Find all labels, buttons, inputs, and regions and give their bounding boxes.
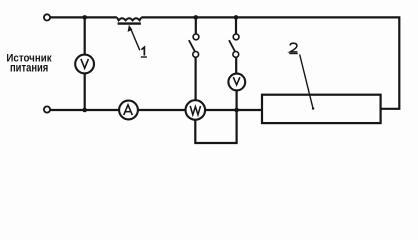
label 2 leader (300, 55, 313, 108)
node: top bus / S2 branch (234, 15, 239, 20)
inductor L1 (iron-core choke) (117, 17, 141, 20)
wire: switch S1 to wattmeter (195, 57, 197, 100)
wire: bottom bus from source to load box (50, 109, 262, 111)
terminal: source plus (44, 14, 50, 20)
wattmeter W (186, 100, 206, 120)
wire: voltmeter V1 to bottom bus (84, 73, 86, 110)
wire: top bus from source to inductor (50, 16, 117, 18)
node: top bus / V1 branch (82, 15, 87, 20)
switch S1 (189, 34, 199, 57)
wire: stub above switch S2 (235, 17, 237, 34)
wire: top bus from inductor to right corner, down right side, into load (141, 17, 399, 108)
node: bottom bus / V1 branch (82, 108, 87, 113)
svg-text:питания: питания (10, 60, 48, 74)
wire: wattmeter potential-coil loop (195, 110, 236, 143)
wire: top bus to voltmeter V1 (84, 17, 86, 54)
load box 2 (262, 95, 381, 123)
label 1 (141, 47, 147, 57)
switch S2 (229, 34, 239, 57)
wire: stub above switch S1 (195, 17, 197, 34)
label 2 (289, 43, 298, 53)
terminal: source minus (44, 106, 50, 112)
node: top bus / S1 branch (194, 15, 199, 20)
inductor core bar (118, 22, 141, 24)
node: bottom bus / wattmeter loop (234, 108, 239, 113)
wire: switch S2 to voltmeter V2 (235, 57, 237, 73)
voltmeter V1 (75, 55, 94, 74)
ammeter A (119, 101, 138, 120)
voltmeter V2 (228, 74, 245, 91)
label 1 arrow (130, 28, 140, 50)
wire: voltmeter V2 to bottom bus (236, 90, 238, 110)
